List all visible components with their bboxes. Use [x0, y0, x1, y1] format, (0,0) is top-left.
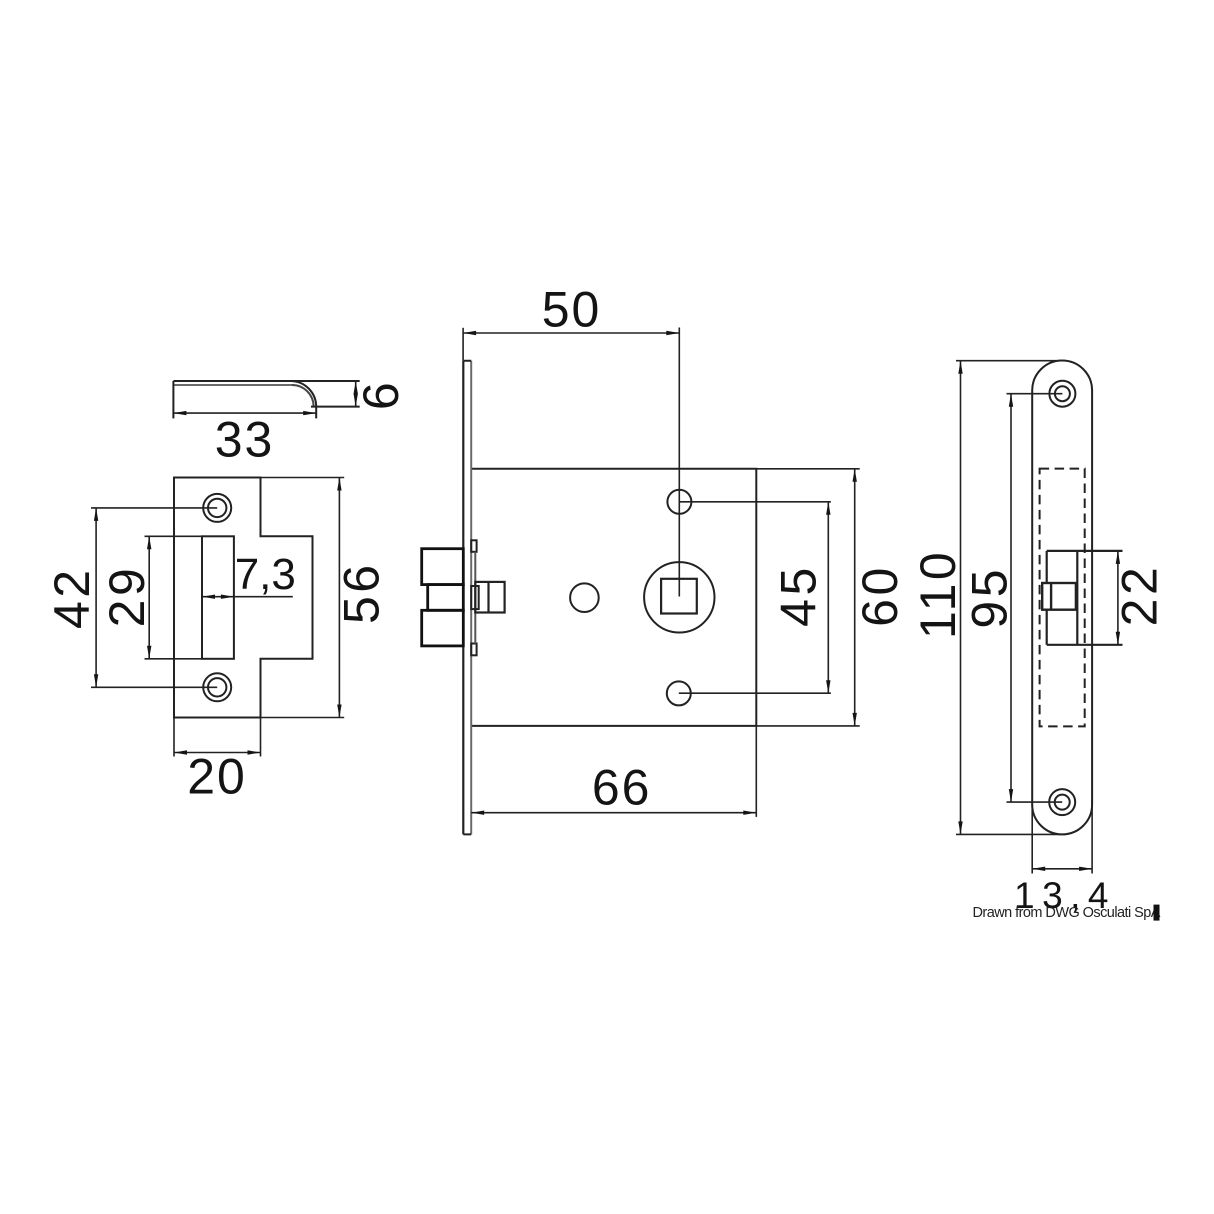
dim 45 leader lower [679, 692, 831, 694]
dim 50 arrows [463, 331, 476, 335]
svg-text:7,3: 7,3 [235, 550, 296, 599]
dim 7,3 arrows [202, 595, 215, 599]
svg-text:33: 33 [215, 412, 275, 468]
dim 66 line [471, 812, 756, 814]
dim 22 arrows [1116, 551, 1120, 564]
dim 33 line [173, 412, 316, 414]
latch guide block [475, 582, 504, 613]
latch opening right edge [1076, 551, 1078, 645]
plate left end edge + extension for dim 33 [172, 381, 174, 418]
screw hole lower outer [203, 673, 231, 701]
latch opening bottom edge + dim 22 extension [1047, 644, 1123, 646]
dim 56 arrows [337, 478, 341, 491]
latch bolt front divider [1050, 583, 1052, 610]
faceplate edge-on left line [462, 361, 464, 835]
dim 95 arrows [1009, 394, 1013, 407]
lower fixing tab [471, 644, 476, 656]
svg-text:29: 29 [99, 565, 155, 628]
footer cursor bar [1154, 905, 1160, 921]
dim 42 line [95, 508, 97, 687]
dim 29 extensions [145, 536, 203, 659]
dim 13,4 arrows [1032, 867, 1045, 871]
dim 110 extensions [956, 361, 1066, 835]
dim 42 extensions [91, 508, 217, 687]
dim 66 arrows [471, 811, 484, 815]
dim 13,4 line [1032, 868, 1092, 870]
dim 6 line [355, 381, 357, 407]
follower large circle [644, 562, 714, 632]
svg-text:6: 6 [353, 379, 409, 410]
tab connecting line [474, 552, 476, 644]
plate outer lip curve [291, 381, 317, 407]
dim 33 arrows [173, 411, 186, 415]
dim 42 arrows [94, 508, 98, 521]
dim 45 line [827, 502, 829, 693]
dim 50 line [463, 332, 679, 334]
plate inner lip curve [292, 385, 314, 407]
dim 60 line [854, 469, 856, 726]
plate top surface line + extension for dim 6 [173, 380, 359, 382]
dim 6 arrows [354, 381, 358, 394]
dim 20 extensions [174, 718, 261, 757]
lock body outline [471, 469, 756, 726]
handle screw hole lower [667, 681, 691, 705]
spindle square hole [661, 579, 697, 614]
dim 60 arrows [853, 469, 857, 482]
dim 22 line [1117, 551, 1119, 645]
svg-text:110: 110 [910, 549, 966, 639]
latch opening top edge + dim 22 extension [1047, 550, 1123, 552]
screw hole lower inner [208, 678, 226, 696]
dim 56 line [338, 478, 340, 718]
cylinder hole circle [570, 583, 599, 612]
latch bolt upper block [422, 549, 464, 585]
dim 20 line [174, 752, 261, 754]
guide block divider [487, 582, 489, 613]
latch bolt lower block [422, 610, 464, 646]
plate inner surface line [173, 384, 292, 386]
latch bolt waist [428, 585, 464, 611]
svg-text:95: 95 [962, 566, 1018, 629]
dim 66 right extension [755, 726, 757, 817]
screw hole lower outer [1049, 789, 1075, 815]
dim 7,3 line [202, 596, 293, 598]
svg-text:45: 45 [771, 564, 827, 627]
handle screw hole upper [667, 490, 691, 514]
plate lip bottom line + extension for dim 6 [311, 406, 360, 408]
screw hole upper outer [203, 494, 231, 522]
dim 33 right extension [315, 407, 317, 419]
latch bolt front block [1042, 583, 1076, 610]
dim 95 line [1010, 394, 1012, 802]
svg-text:42: 42 [44, 566, 100, 629]
dim 95 extensions [1007, 394, 1063, 802]
svg-text:20: 20 [187, 748, 247, 804]
dim 110 arrows [958, 361, 962, 374]
dim 29 line [148, 536, 150, 659]
dim 45 leader upper [679, 501, 831, 503]
screw hole upper inner [1055, 386, 1070, 401]
faceplate edge-on right line [470, 361, 472, 835]
dim 45 arrows [826, 502, 830, 515]
dashed mortise rectangle [1040, 469, 1085, 727]
dim 110 line [960, 361, 962, 835]
screw hole lower inner [1055, 795, 1070, 810]
screw hole upper inner [208, 499, 226, 517]
screw hole upper outer [1049, 381, 1075, 407]
svg-text:50: 50 [542, 281, 602, 337]
latch opening left edge [1046, 551, 1048, 645]
latch cutout [202, 536, 234, 659]
strike plate outline [174, 478, 313, 718]
dim 50 left extension [462, 328, 464, 361]
svg-text:66: 66 [592, 759, 652, 815]
svg-text:22: 22 [1112, 564, 1168, 627]
svg-text:Drawn from DWG Osculati SpA: Drawn from DWG Osculati SpA [973, 905, 1161, 921]
guide small plate [471, 586, 479, 609]
dim 29 arrows [147, 536, 151, 549]
faceplate end caps [463, 361, 471, 835]
dim 56 extensions [261, 478, 345, 718]
faceplate stadium outline [1032, 361, 1092, 835]
dim 20 arrows [174, 750, 187, 754]
upper fixing tab [471, 540, 476, 552]
svg-text:60: 60 [852, 564, 908, 627]
svg-text:56: 56 [334, 561, 390, 624]
centre line from dim 50 to square [678, 328, 680, 597]
dim 13,4 extensions [1032, 800, 1092, 874]
dim 60 extensions [756, 469, 859, 726]
